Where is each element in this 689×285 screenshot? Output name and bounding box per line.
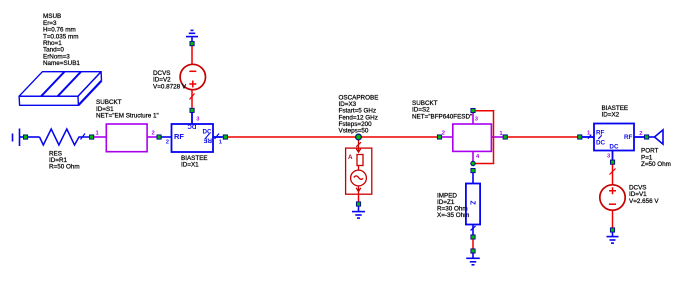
node resistor-S1	[90, 135, 94, 139]
node below V1	[610, 228, 614, 232]
resistor R1	[40, 129, 90, 145]
V1 labels	[629, 185, 659, 205]
node above V2	[190, 42, 194, 46]
wire: probe to ground (red)	[358, 194, 360, 202]
MSUB parameter text	[43, 13, 80, 67]
node S2 top	[471, 108, 475, 112]
ground above V2 (inverted)	[186, 30, 198, 41]
junction S2 pin4	[471, 161, 475, 165]
tick on X2 pin1	[588, 135, 591, 139]
wire: ground to resistor	[28, 136, 40, 138]
node below IMPED	[471, 235, 475, 239]
svg-text:V=2.656 V: V=2.656 V	[629, 198, 659, 205]
wire: V2 top to ground node (red)	[191, 46, 193, 64]
MSUB substrate 3D icon	[19, 72, 101, 106]
oscillator probe X3	[346, 140, 372, 194]
DCVS V1	[600, 185, 625, 210]
svg-text:DC: DC	[203, 129, 213, 136]
svg-text:A: A	[348, 154, 353, 161]
node at input	[23, 135, 27, 139]
tick below IMPED	[471, 226, 476, 231]
node S1-X1	[157, 135, 161, 139]
DCVS V2	[180, 64, 205, 89]
wire: node to S2	[442, 136, 453, 138]
tick on V2 bottom wire	[190, 94, 195, 100]
RES R1 labels	[49, 150, 80, 170]
input ground (rotated)	[13, 129, 24, 147]
wire below IMPED	[472, 225, 474, 235]
wire: V1 to ground (red)	[612, 210, 614, 228]
svg-text:NET="EM Structure 1": NET="EM Structure 1"	[96, 113, 159, 120]
wire: S2 bottom node to IMPED (blue)	[472, 173, 474, 184]
svg-text:Name=SUB1: Name=SUB1	[43, 60, 80, 67]
X2 labels	[602, 105, 629, 119]
ground below probe	[352, 206, 365, 218]
tick on resistor lead	[81, 134, 86, 140]
svg-text:NET="BFP640FESD": NET="BFP640FESD"	[412, 113, 472, 120]
PORT labels	[641, 148, 671, 168]
V2 labels	[153, 70, 187, 90]
svg-text:2: 2	[442, 131, 445, 137]
subcircuit S2 (BFP640FESD)	[453, 112, 503, 161]
wire: node to port	[649, 136, 655, 138]
svg-text:2: 2	[639, 131, 642, 137]
tick on X2 bottom wire	[610, 169, 616, 175]
wire: S2 to X2 (red)	[508, 136, 578, 138]
svg-text:Z: Z	[469, 201, 476, 206]
svg-text:ID=X2: ID=X2	[602, 112, 620, 119]
svg-text:Z=50 Ohm: Z=50 Ohm	[641, 161, 671, 168]
svg-text:RF: RF	[624, 134, 633, 141]
svg-text:2: 2	[152, 130, 155, 136]
ground below IMPED	[466, 253, 480, 265]
node X1 top	[190, 108, 194, 112]
svg-text:RF: RF	[203, 137, 212, 144]
IMPED labels	[437, 192, 469, 219]
node below junction	[471, 169, 475, 173]
impedance Z1	[466, 184, 480, 225]
svg-text:DC: DC	[609, 143, 619, 150]
X1 labels	[181, 155, 208, 169]
wire: X2 bottom to V1 (red)	[612, 165, 614, 186]
node S2 right	[503, 135, 507, 139]
svg-text:DC: DC	[596, 140, 606, 147]
wire: node to S1 (magenta stub)	[94, 136, 106, 138]
S2 labels	[412, 100, 472, 120]
svg-text:Vsteps=50: Vsteps=50	[339, 128, 369, 135]
wire: V2 bottom to X1 top node (red)	[191, 90, 193, 108]
svg-text:X=-35 Ohm: X=-35 Ohm	[437, 212, 469, 219]
svg-text:V=0.8728 V: V=0.8728 V	[153, 83, 187, 90]
feedback wire S2 pin3 to pin4 (red)	[475, 111, 494, 164]
port P1	[655, 130, 664, 144]
bias tee X1	[172, 113, 223, 153]
wire: S1 pin2 stub	[147, 136, 157, 138]
node X2 bottom	[610, 160, 614, 164]
node X2 left	[578, 135, 582, 139]
wire: node to X1	[162, 136, 172, 138]
node below probe	[356, 202, 360, 206]
svg-text:2: 2	[166, 139, 169, 145]
svg-text:RF: RF	[174, 132, 184, 141]
svg-text:DC: DC	[187, 123, 197, 130]
bias tee X2	[582, 124, 645, 160]
svg-text:R=50 Ohm: R=50 Ohm	[49, 164, 80, 171]
junction at probe	[356, 134, 362, 140]
svg-text:RF: RF	[596, 130, 605, 137]
node X1 right	[223, 135, 227, 139]
svg-text:ID=X1: ID=X1	[181, 162, 199, 169]
red wire segment to ground	[472, 239, 474, 249]
node at IMPED ground	[471, 249, 475, 253]
ground below V1	[607, 232, 619, 243]
OSCAPROBE labels	[339, 95, 379, 135]
node X2 right	[645, 135, 649, 139]
subcircuit S1 (EM Structure 1)	[106, 124, 147, 152]
node S2 pin2	[437, 135, 441, 139]
tick on X1 pin1	[215, 134, 220, 140]
wire: X1 to oscaprobe junction (red)	[228, 136, 438, 138]
S1 labels	[96, 99, 159, 119]
